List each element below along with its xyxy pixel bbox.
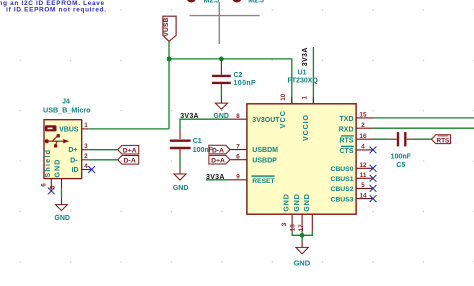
svg-text:U1: U1 xyxy=(298,69,307,76)
global label RTS xyxy=(432,135,451,145)
note text xyxy=(0,0,107,13)
svg-text:D+A: D+A xyxy=(123,148,137,155)
pin 11 xyxy=(356,177,373,179)
svg-text:3: 3 xyxy=(84,143,88,150)
no-connect CBUS0 xyxy=(370,165,377,172)
capacitor C1 xyxy=(170,130,214,157)
svg-text:VBUS: VBUS xyxy=(59,127,79,134)
wire C2 to gnd xyxy=(220,87,222,97)
svg-text:D+A: D+A xyxy=(211,158,225,165)
svg-text:CBUS1: CBUS1 xyxy=(330,176,353,183)
svg-text:1: 1 xyxy=(301,95,308,99)
no-connect CBUS1 xyxy=(370,175,377,182)
connector J4 xyxy=(41,99,92,190)
junction IC gnd xyxy=(300,233,305,238)
mounting hole H2 xyxy=(232,0,264,5)
pin 4 xyxy=(82,169,92,171)
svg-text:GND: GND xyxy=(302,193,311,211)
pin 1 xyxy=(82,128,89,130)
global label D-A (left) xyxy=(118,156,139,165)
svg-text:GND: GND xyxy=(52,159,61,178)
svg-text:USBDM: USBDM xyxy=(252,147,278,154)
pin 2 xyxy=(356,127,373,129)
pin 17 xyxy=(311,214,313,231)
svg-text:GND: GND xyxy=(173,185,189,192)
svg-text:ID: ID xyxy=(72,167,79,174)
wire VUSB rail xyxy=(169,59,292,104)
pin 15 xyxy=(356,117,373,119)
pin 13 xyxy=(301,214,303,231)
svg-text:TXD: TXD xyxy=(340,116,354,123)
pin 3 xyxy=(291,214,293,231)
svg-text:100nF: 100nF xyxy=(234,80,257,87)
pin 6 xyxy=(230,159,247,161)
ground J4 xyxy=(54,199,70,222)
svg-text:8: 8 xyxy=(236,113,240,120)
svg-text:D-A: D-A xyxy=(124,158,136,165)
svg-text:5: 5 xyxy=(361,182,365,189)
mounting hole H1 xyxy=(186,0,219,5)
svg-text:12: 12 xyxy=(360,162,367,169)
svg-text:11: 11 xyxy=(360,172,367,179)
svg-text:17: 17 xyxy=(298,224,305,231)
wire RTS left xyxy=(373,138,390,140)
pin 9 xyxy=(230,179,247,181)
svg-text:VUSB: VUSB xyxy=(163,18,170,37)
svg-text:D-A: D-A xyxy=(212,147,224,154)
svg-text:CTS: CTS xyxy=(340,148,354,155)
svg-text:5: 5 xyxy=(49,185,56,189)
svg-text:14: 14 xyxy=(360,192,367,199)
ground U1 xyxy=(293,242,310,268)
wire D+ xyxy=(89,149,118,151)
svg-text:16: 16 xyxy=(360,133,367,140)
svg-text:3V3OUT: 3V3OUT xyxy=(252,117,280,124)
no-connect CBUS2 xyxy=(370,185,377,192)
net RESET wire xyxy=(206,179,230,181)
svg-text:M2.5: M2.5 xyxy=(248,0,264,5)
svg-text:7: 7 xyxy=(236,143,240,150)
svg-text:VCCIO: VCCIO xyxy=(301,114,310,141)
pin 16 xyxy=(356,138,373,140)
wire RXD xyxy=(373,127,474,129)
wire VCCIO xyxy=(312,47,314,104)
svg-text:J4: J4 xyxy=(62,99,70,106)
svg-text:C1: C1 xyxy=(193,138,202,145)
svg-text:USB_B_Micro: USB_B_Micro xyxy=(43,106,91,115)
svg-text:C5: C5 xyxy=(396,162,405,169)
wire RTS right xyxy=(414,138,432,140)
svg-text:4: 4 xyxy=(361,144,365,151)
wire D- xyxy=(89,159,118,161)
svg-text:RTS: RTS xyxy=(340,138,354,145)
capacitor C2 xyxy=(212,60,256,87)
svg-text:6: 6 xyxy=(236,153,240,160)
global label VUSB xyxy=(163,16,176,41)
svg-text:100nF: 100nF xyxy=(391,154,412,161)
svg-text:RTS: RTS xyxy=(437,137,451,144)
svg-text:GND: GND xyxy=(293,259,310,268)
usb trident icon xyxy=(45,139,49,143)
IC U1 FT230XQ xyxy=(230,69,373,231)
cursor crosshair xyxy=(190,2,260,44)
no-connect pin6 xyxy=(48,188,55,195)
usb plug icon xyxy=(45,126,56,131)
svg-text:M2.5: M2.5 xyxy=(204,0,220,5)
wire TXD xyxy=(373,117,474,119)
svg-text:3V3A: 3V3A xyxy=(206,174,225,181)
pin 6 xyxy=(50,179,52,190)
junction VUSB xyxy=(167,57,172,62)
svg-text:1: 1 xyxy=(84,122,88,129)
junction C2 tap xyxy=(219,57,224,62)
svg-text:RXD: RXD xyxy=(339,126,354,133)
wire IC gnd xyxy=(292,231,312,242)
global label D+A (left) xyxy=(118,145,139,154)
svg-text:3: 3 xyxy=(281,222,288,226)
svg-text:D+: D+ xyxy=(68,147,77,154)
pin 10 xyxy=(291,97,293,104)
capacitor C5 xyxy=(390,132,414,169)
svg-text:9: 9 xyxy=(236,174,240,181)
pin 1 xyxy=(312,97,314,104)
global label D-A (right) xyxy=(209,145,230,154)
svg-text:GND: GND xyxy=(292,193,301,211)
svg-text:CBUS3: CBUS3 xyxy=(330,196,353,203)
net 3V3OUT wire xyxy=(180,119,230,129)
wire VBUS xyxy=(89,128,169,130)
no-connect CTS xyxy=(370,147,377,154)
svg-text:3V3A: 3V3A xyxy=(302,47,309,66)
svg-text:RESET: RESET xyxy=(252,178,275,185)
ground C1 xyxy=(173,168,189,192)
svg-text:C2: C2 xyxy=(234,72,243,79)
svg-text:if ID EEPROM not required.: if ID EEPROM not required. xyxy=(6,6,107,13)
pin 12 xyxy=(356,167,373,169)
svg-text:Shield: Shield xyxy=(43,149,52,178)
ground C2 xyxy=(213,96,229,120)
no-connect CBUS3 xyxy=(370,195,377,202)
svg-text:15: 15 xyxy=(360,112,367,119)
svg-text:6: 6 xyxy=(41,183,48,187)
svg-text:GND: GND xyxy=(54,215,70,222)
svg-text:D-: D- xyxy=(70,157,78,164)
svg-text:100nF: 100nF xyxy=(193,147,214,154)
global label D+A (right) xyxy=(209,155,230,164)
svg-text:2: 2 xyxy=(84,153,88,160)
pin 5 xyxy=(61,179,63,189)
wire J4 gnd xyxy=(61,189,63,199)
wire VUSB riser xyxy=(168,41,170,129)
pin 5 xyxy=(356,187,373,189)
svg-text:3V3A: 3V3A xyxy=(180,113,199,120)
pin 2 xyxy=(82,159,89,161)
pin 3 xyxy=(82,149,89,151)
pin 4 xyxy=(356,149,373,151)
svg-text:13: 13 xyxy=(290,224,297,231)
svg-text:4: 4 xyxy=(84,163,88,170)
svg-text:FT230XQ: FT230XQ xyxy=(288,78,319,85)
no-connect pin4 xyxy=(88,166,95,173)
wire C1 to gnd xyxy=(179,156,181,168)
pin 14 xyxy=(356,198,373,200)
pin 7 xyxy=(230,149,247,151)
svg-text:GND: GND xyxy=(282,193,291,211)
pin 8 xyxy=(230,118,247,120)
svg-text:VCC: VCC xyxy=(278,110,287,128)
svg-text:2: 2 xyxy=(361,122,365,129)
svg-text:USBDP: USBDP xyxy=(252,157,277,164)
svg-text:CBUS0: CBUS0 xyxy=(330,166,353,173)
svg-text:CBUS2: CBUS2 xyxy=(330,186,353,193)
svg-text:10: 10 xyxy=(280,93,287,100)
